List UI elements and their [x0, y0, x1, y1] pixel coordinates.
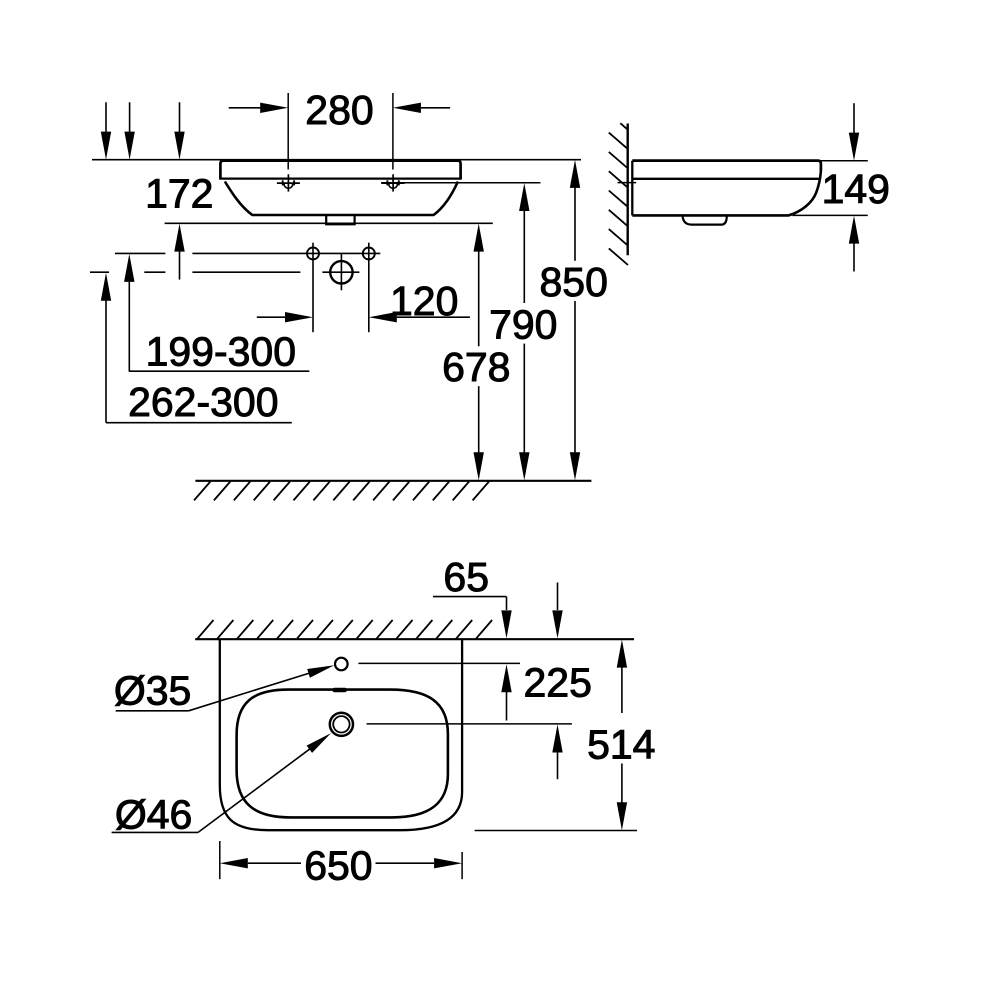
svg-text:65: 65	[443, 554, 489, 600]
svg-text:172: 172	[145, 171, 213, 217]
svg-text:225: 225	[523, 660, 591, 706]
svg-text:149: 149	[822, 166, 890, 212]
svg-text:650: 650	[304, 842, 372, 888]
svg-text:280: 280	[305, 87, 373, 133]
svg-text:120: 120	[390, 278, 458, 324]
svg-text:262-300: 262-300	[128, 379, 278, 425]
svg-text:514: 514	[587, 721, 655, 767]
svg-text:850: 850	[539, 259, 607, 305]
svg-text:790: 790	[489, 302, 557, 348]
svg-text:678: 678	[442, 344, 510, 390]
svg-text:Ø35: Ø35	[114, 667, 192, 713]
svg-text:Ø46: Ø46	[115, 791, 193, 837]
svg-text:199-300: 199-300	[146, 329, 296, 375]
